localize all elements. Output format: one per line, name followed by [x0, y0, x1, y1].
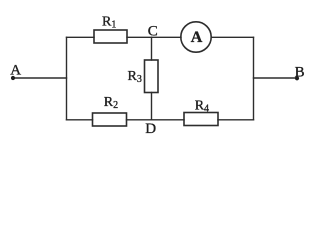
svg-text:A: A [10, 63, 21, 79]
svg-text:R3: R3 [128, 69, 142, 85]
wire right rail to B [254, 77, 298, 79]
wire R4 to right rail [218, 119, 254, 121]
resistor R4 [184, 113, 218, 126]
svg-text:R1: R1 [102, 14, 116, 30]
svg-text:B: B [295, 65, 305, 81]
svg-text:C: C [148, 23, 158, 39]
ammeter U1 [181, 22, 211, 52]
wire node C to R3 [151, 37, 153, 60]
wire R2 to R4 through node D [127, 119, 185, 121]
wire A to left rail [13, 77, 67, 79]
svg-text:A: A [191, 29, 203, 46]
svg-text:R2: R2 [104, 95, 118, 111]
resistor R2 [93, 113, 127, 126]
resistor R1 [94, 30, 127, 43]
wire R1 to ammeter [127, 36, 181, 38]
svg-text:R4: R4 [195, 99, 209, 115]
wire top-left to R1 [67, 36, 95, 38]
terminal dot A [11, 76, 15, 80]
wire left rail vertical [66, 37, 68, 120]
terminal dot B [295, 76, 299, 80]
wire right rail vertical [253, 37, 255, 120]
wire ammeter to right rail [211, 36, 253, 38]
resistor R3 [145, 60, 159, 93]
wire R3 to node D [151, 93, 153, 120]
svg-text:D: D [145, 121, 156, 137]
wire bottom-left to R2 [67, 119, 93, 121]
